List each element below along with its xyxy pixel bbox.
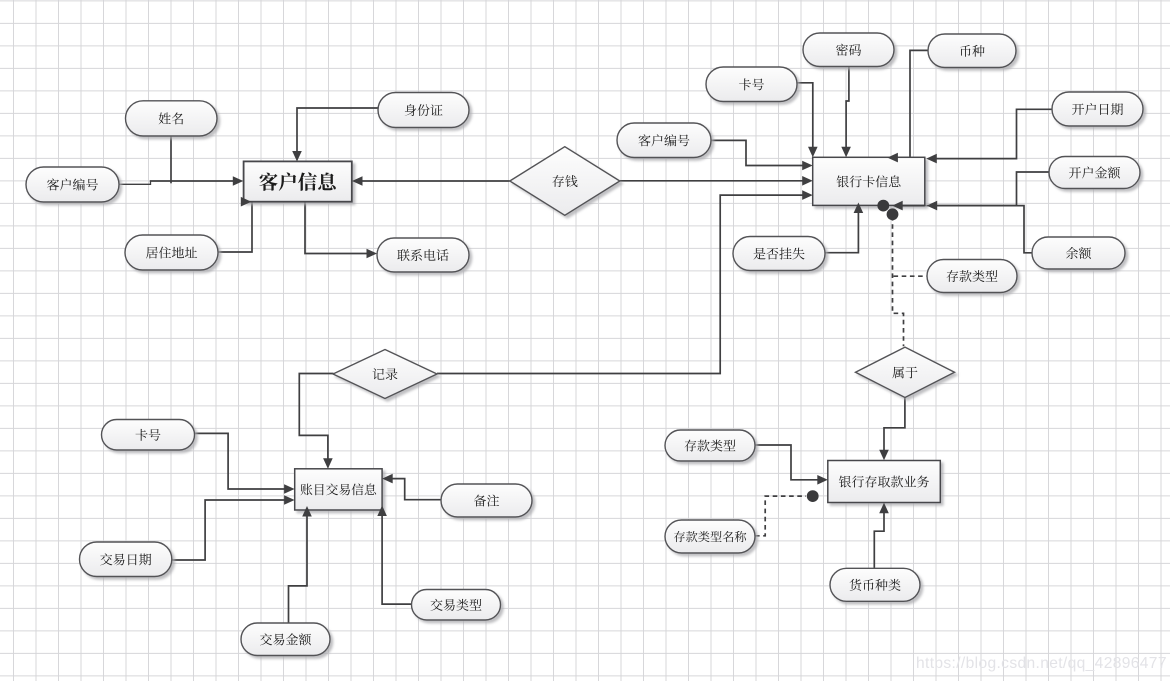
wire deposit to customer-info — [359, 180, 510, 182]
relationship 属于 — [856, 347, 955, 397]
wire deposit-type-name dashed to dot — [755, 496, 806, 536]
wire customer-id stub — [119, 181, 151, 184]
attribute 币种 — [928, 34, 1016, 68]
entity 客户信息 — [244, 161, 352, 201]
wire deposit-type2 to deposit-business — [755, 445, 821, 480]
wire record to account-info — [299, 374, 333, 463]
wire trans-date to account-info — [172, 500, 288, 560]
junction dot bankcard port 2 — [887, 208, 899, 220]
wire cardno to bankcard — [797, 83, 813, 151]
attribute 姓名 — [126, 101, 218, 136]
wire customer-info to phone — [305, 202, 370, 254]
attribute 卡号 — [102, 420, 195, 451]
wire balance port segment over bankcard edge — [899, 205, 925, 207]
attribute 身份证 — [378, 93, 469, 128]
relationship 记录 — [333, 350, 437, 399]
entity 账目交易信息 — [295, 469, 382, 510]
wire customer-id to customer-info — [150, 180, 236, 182]
attribute 是否挂失 — [733, 237, 825, 271]
wire currency-kind to deposit-business — [874, 509, 884, 568]
wire trans-type to account-info — [382, 512, 411, 604]
attribute 客户编号 — [617, 123, 711, 158]
attribute 卡号 — [706, 67, 797, 102]
attribute 居住地址 — [125, 235, 218, 270]
arrowheads — [233, 147, 937, 517]
wire balance to bankcard dot — [899, 206, 1032, 253]
attribute 交易类型 — [412, 590, 501, 621]
wire id-card to customer-info — [297, 108, 378, 155]
wire lost-flag to bankcard — [825, 210, 859, 253]
wire open-amount to bankcard — [933, 172, 1049, 206]
wire open-date to bankcard — [933, 109, 1052, 158]
wire cardno2 to account-info — [195, 433, 289, 489]
attribute 联系电话 — [377, 238, 469, 272]
entity 银行存取款业务 — [828, 461, 941, 503]
relationship 存钱 — [510, 147, 620, 216]
wire customer-id2 to bankcard — [712, 140, 807, 165]
attribute 余额 — [1032, 237, 1125, 269]
junction dot bankcard port 1 — [877, 200, 889, 212]
wire deposit to bankcard — [620, 180, 806, 182]
entity 银行卡信息 — [813, 157, 925, 205]
wire deposit-type dashed branch — [894, 275, 927, 277]
wire note to account-info — [389, 479, 442, 500]
junction dot deposit-business port — [807, 490, 819, 502]
wire trans-amount to account-info — [289, 512, 308, 623]
attribute 存款类型 — [927, 260, 1017, 293]
wire currency to bankcard — [894, 50, 928, 157]
wire record to bankcard — [437, 195, 806, 373]
wire belongs to deposit-business — [884, 397, 905, 454]
attribute 交易日期 — [80, 542, 172, 577]
attribute 开户日期 — [1052, 92, 1143, 126]
attribute 开户金额 — [1049, 157, 1140, 189]
wire address to customer-info — [218, 202, 252, 252]
attribute 存款类型 — [665, 430, 755, 461]
wire password to bankcard — [846, 67, 849, 152]
wire deposit-type dashed to belongs — [893, 216, 904, 346]
attribute 货币种类 — [830, 568, 920, 601]
svg-text:https://blog.csdn.net/qq_42896: https://blog.csdn.net/qq_42896477 — [916, 655, 1167, 672]
attribute 客户编号 — [26, 167, 119, 202]
attribute 密码 — [803, 33, 894, 67]
attribute 存款类型名称 — [665, 520, 755, 553]
attribute 备注 — [441, 484, 532, 517]
attribute 交易金额 — [241, 623, 330, 656]
wire name to customer-info — [170, 136, 172, 184]
